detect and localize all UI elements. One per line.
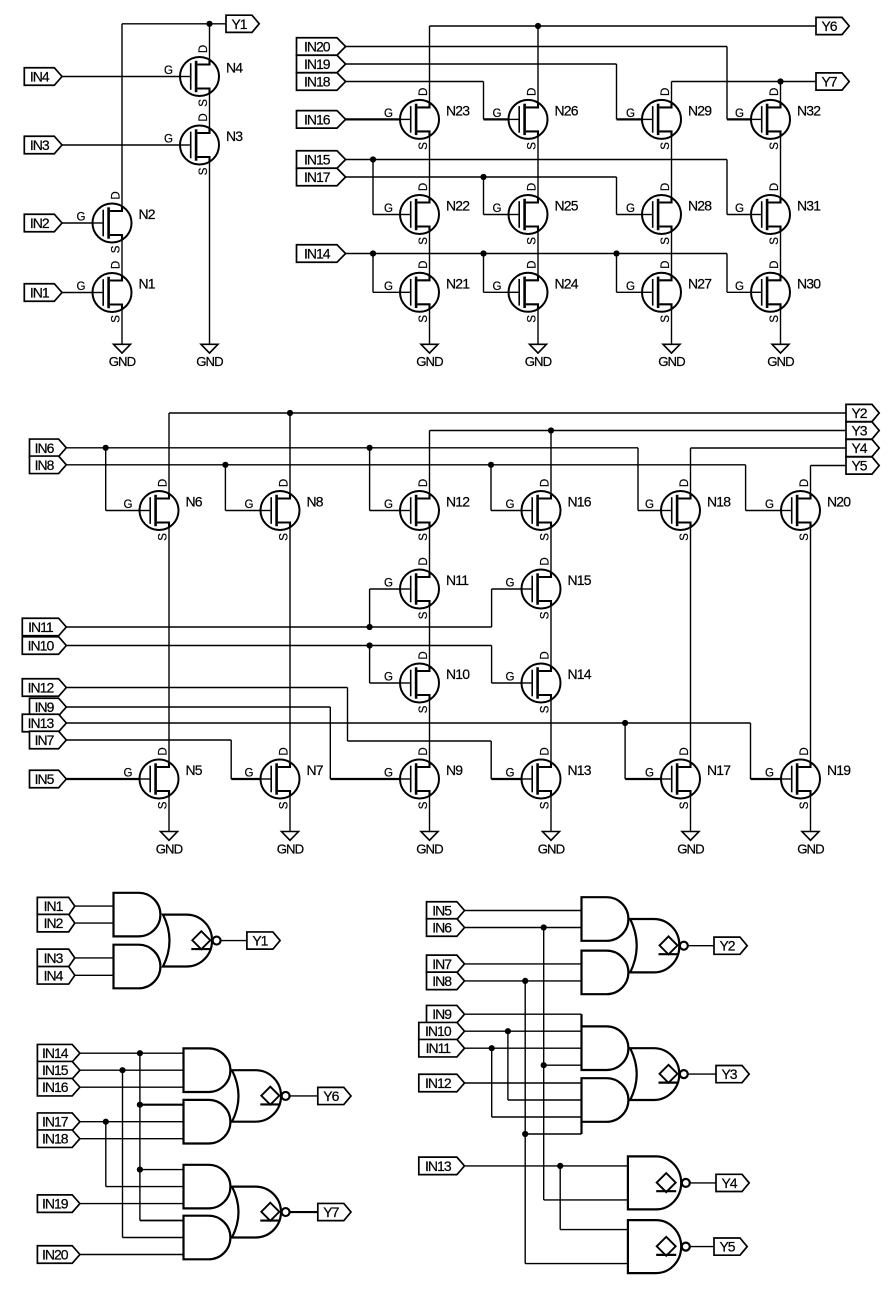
svg-text:IN17: IN17 [42,1114,69,1130]
wire N20 source to N19 drain [810,527,812,762]
svg-text:N4: N4 [226,60,243,76]
input flag IN12 [419,1074,465,1092]
input flag IN19 [37,1195,80,1213]
svg-text:D: D [799,747,811,755]
wire IN13 to NAND gate Y4 pin1 [465,1165,628,1167]
transistor N22 (NMOS) [384,183,470,245]
svg-text:D: D [526,183,538,191]
wire IN10 to N10 gate [370,646,400,684]
wire source to GND column 3 (middle) [429,796,431,832]
input flag IN1 [24,284,62,302]
junction IN14 branch to N24 [480,250,486,256]
svg-text:G: G [506,499,515,511]
svg-text:N12: N12 [446,494,470,510]
input flag IN18 [37,1130,80,1148]
AND gate A1 (IN1,IN2) [114,893,161,937]
output flag Y4 [846,439,879,456]
svg-text:D: D [110,261,122,269]
transistor N4 (NMOS) [164,45,243,107]
svg-text:IN2: IN2 [30,215,50,231]
svg-text:IN9: IN9 [35,699,55,715]
svg-text:D: D [526,261,538,269]
svg-text:S: S [418,705,430,713]
wire IN6 to AND gate A9 pin4 [544,1064,582,1066]
svg-text:IN8: IN8 [432,973,452,989]
input flag IN2 [37,914,75,932]
svg-text:G: G [124,768,133,780]
wire IN7 to AND gate A8 [465,963,582,965]
svg-text:IN15: IN15 [304,152,331,168]
svg-text:S: S [418,142,430,150]
transistor N28 (NMOS) [626,183,712,245]
input flag IN13 [419,1157,465,1175]
svg-text:Y2: Y2 [719,938,735,954]
wire Y2 net: N6 drain up [168,413,170,494]
wire IN4 to N4 gate [62,76,180,78]
svg-text:S: S [769,237,781,245]
wire IN9 to AND gate A9 pin1 [465,1013,582,1015]
svg-text:S: S [526,142,538,150]
transistor N19 (NMOS) [765,747,851,809]
input flag IN5 [30,770,67,788]
svg-text:G: G [384,281,393,293]
input flag IN16 [297,111,346,128]
NOR gate (open-drain) driving Y7 [232,1187,281,1238]
wire IN1 to N1 gate [62,292,93,294]
svg-text:D: D [526,88,538,96]
wire source to GND column 6 (middle) [810,796,812,832]
wire IN16 to AND gate A3 [80,1086,184,1088]
svg-text:D: D [769,183,781,191]
input flag IN16 [37,1078,80,1096]
svg-text:G: G [506,578,515,590]
svg-text:IN10: IN10 [28,638,55,654]
wire N18 source to N17 drain [690,527,692,762]
svg-text:S: S [418,611,430,619]
wire IN14 to N30 gate [727,254,751,293]
svg-text:IN10: IN10 [425,1023,452,1039]
svg-text:G: G [645,499,654,511]
svg-text:S: S [539,533,551,541]
wire Y7 output [290,1211,318,1213]
svg-text:N2: N2 [139,206,156,222]
svg-text:D: D [198,45,210,53]
wire N8 source to N7 drain [289,527,291,762]
input flag IN3 [37,949,75,967]
ground (top-right column 3) [658,344,685,369]
svg-text:Y1: Y1 [231,16,247,32]
svg-text:D: D [660,183,672,191]
svg-text:D: D [157,747,169,755]
svg-text:G: G [245,768,254,780]
open-drain diamond symbol [659,936,679,954]
wire IN19 gate stub at N29 [617,118,643,120]
wire Y7 net: N32 drain up [780,82,782,103]
wire IN4 to AND gate A2 [75,974,114,976]
svg-text:G: G [384,578,393,590]
svg-text:GND: GND [109,354,136,369]
wire IN14 to N27 gate [617,254,643,293]
wire IN10 horizontal [66,645,491,647]
output flag Y2 [846,404,879,421]
wire IN12 to N13 gate [66,688,491,780]
svg-text:Y7: Y7 [821,74,837,90]
wire IN10 to AND gate A9 [465,1030,582,1032]
svg-text:N10: N10 [446,666,470,682]
svg-text:IN12: IN12 [28,680,55,696]
wire IN10 vertical to A10 [508,1031,582,1100]
wire IN11 to N15 gate [492,589,522,627]
svg-text:Y5: Y5 [851,458,867,474]
wire Y5 output [690,1246,714,1248]
svg-text:S: S [660,237,672,245]
svg-text:IN13: IN13 [425,1158,452,1174]
open-drain diamond symbol [260,1203,280,1221]
AND gate A3 (IN14,IN15,IN16) [184,1048,231,1092]
svg-text:GND: GND [677,841,704,856]
svg-text:IN1: IN1 [44,898,64,914]
input flag IN15 [37,1061,80,1079]
output flag Y4 [716,1174,749,1191]
wire IN14 to AND gate A3 [80,1052,184,1054]
wire N4 source to N3 drain [209,93,211,128]
wire IN18 to N26 gate [346,82,484,120]
output inversion bubble [682,1243,690,1251]
svg-text:G: G [384,108,393,120]
junction IN11 branch to N11 [367,624,373,630]
ground (middle column 2) [277,832,304,857]
wire IN19 to N29 gate [346,64,617,119]
wire N3 source to GND [209,162,211,345]
wire IN13 to N17 gate [624,723,626,779]
input flag IN6 [427,919,465,937]
NAND gate (open-drain) driving Y5 [628,1220,681,1273]
svg-text:D: D [539,479,551,487]
svg-text:S: S [539,801,551,809]
svg-text:GND: GND [277,841,304,856]
svg-text:S: S [679,533,691,541]
wire Y1 output [221,940,247,942]
wire IN8 vertical [524,981,526,1264]
svg-text:N27: N27 [688,275,712,291]
output flag Y7 [816,73,849,90]
svg-text:S: S [418,315,430,323]
wire IN6 to N18 gate [638,448,661,511]
junction IN14 to A5 [137,1167,143,1173]
svg-text:IN19: IN19 [42,1196,69,1212]
svg-text:S: S [769,315,781,323]
junction IN13 vertical [557,1163,563,1169]
wire source to GND column 2 (middle) [289,796,291,832]
svg-text:IN18: IN18 [304,74,331,90]
svg-text:Y1: Y1 [252,933,268,949]
svg-text:Y4: Y4 [851,440,867,456]
junction IN8 vertical [522,978,528,984]
wire IN6 vertical [543,928,545,1200]
transistor N9 (NMOS) [384,747,463,809]
output flag Y1 [247,932,280,949]
svg-text:S: S [799,801,811,809]
output flag Y1 [226,15,259,32]
svg-text:IN19: IN19 [304,56,331,72]
wire IN12 gate stub at N13 [491,778,521,780]
wire Y2 output [688,945,714,947]
wire source to GND column 5 (middle) [690,796,692,832]
svg-text:G: G [245,499,254,511]
wire IN20 to AND gate A6 [80,1254,184,1256]
wire IN3 to N3 gate [62,144,180,146]
wire IN14 to AND gate A5 pin1 [140,1169,184,1171]
output inversion bubble [282,1092,290,1100]
NOR gate (open-drain) driving Y1 [163,915,212,967]
svg-text:D: D [110,191,122,199]
svg-text:D: D [660,261,672,269]
junction IN10 branch to N10 [367,642,373,648]
svg-text:G: G [765,768,774,780]
svg-text:G: G [493,203,502,215]
transistor N14 (NMOS) [506,651,592,713]
input flag IN20 [37,1246,80,1264]
wire IN15 to AND gate A3 [80,1069,184,1071]
svg-text:S: S [278,801,290,809]
wire IN17 vertical to A5 [106,1122,184,1187]
AND gate A4 (IN14,IN17,IN18) [184,1100,231,1144]
transistor N5 (NMOS) [124,747,203,809]
wire drain-source chain column 1 (top-right) [429,136,431,344]
input flag IN6 [30,439,67,457]
output flag Y2 [714,937,747,954]
transistor N29 (NMOS) [626,88,712,150]
junction IN13 branch to N17 [622,720,628,726]
wire drain-source chain column 3 (top-right) [671,136,673,344]
svg-text:GND: GND [538,841,565,856]
svg-text:GND: GND [416,354,443,369]
wire IN8 to AND gate A8 [465,980,582,982]
svg-text:Y3: Y3 [721,1066,737,1082]
svg-text:G: G [626,203,635,215]
AND gate A7 (IN5,IN6) [582,897,629,941]
svg-text:N20: N20 [827,494,851,510]
input flag IN8 [427,972,465,990]
svg-text:D: D [769,88,781,96]
wire IN2 to AND gate A1 [75,922,114,924]
output flag Y7 [318,1203,351,1220]
junction IN8 branch to N8 [222,462,228,468]
transistor N20 (NMOS) [765,479,851,541]
svg-text:N11: N11 [446,572,469,588]
svg-text:G: G [735,203,744,215]
wire IN9 to N9 gate [66,707,330,779]
svg-text:D: D [418,747,430,755]
svg-text:IN14: IN14 [42,1045,69,1061]
svg-text:D: D [278,747,290,755]
input flag IN7 [30,731,67,749]
open-drain diamond symbol [656,1173,676,1192]
input flag IN11 [22,618,66,636]
svg-text:Y6: Y6 [821,18,837,34]
wire IN11 to N11 gate [370,589,400,627]
svg-text:IN8: IN8 [35,457,55,473]
svg-text:G: G [506,672,515,684]
svg-text:D: D [418,183,430,191]
wire N12-N11-N10-N9 chain [429,527,431,762]
ground (top-right column 1) [416,344,443,369]
wire N1 source to GND [121,309,123,344]
input flag IN17 [37,1113,80,1131]
wire IN6 to AND gate A7 [465,927,582,929]
output flag Y3 [846,422,879,439]
wire Y5 net: N20 drain to flag [811,466,847,494]
svg-text:IN11: IN11 [28,619,54,635]
input flag IN13 [22,714,66,732]
wire IN18 gate stub at N26 [484,118,509,120]
svg-text:S: S [660,315,672,323]
svg-text:G: G [735,108,744,120]
input flag IN3 [24,136,62,154]
wire IN13 gate stub at N19 [751,778,782,780]
svg-text:G: G [493,281,502,293]
svg-text:G: G [384,499,393,511]
open-drain diamond symbol [659,1065,679,1083]
AND gate A5 (IN14,IN17,IN19) [184,1165,231,1209]
svg-text:IN16: IN16 [42,1079,69,1095]
svg-text:G: G [735,281,744,293]
svg-text:N19: N19 [827,762,851,778]
svg-text:S: S [526,237,538,245]
svg-text:Y5: Y5 [719,1239,735,1255]
wire Y6 net: bus to Y6 flag [430,25,817,27]
svg-text:G: G [164,134,173,146]
transistor N23 (NMOS) [384,88,470,150]
svg-text:N13: N13 [568,762,592,778]
svg-text:GND: GND [525,354,552,369]
svg-text:IN15: IN15 [42,1062,69,1078]
input flag IN12 [22,679,66,697]
input flag IN8 [30,456,67,474]
output flag Y5 [714,1238,747,1255]
svg-text:D: D [799,479,811,487]
wire IN15 horizontal [346,159,727,161]
wire IN14 to N24 gate [484,254,509,293]
svg-text:D: D [769,261,781,269]
output inversion bubble [213,937,221,945]
transistor N27 (NMOS) [626,261,712,323]
wire Y3 net: N12 drain up [429,431,431,494]
wire drain-source chain column 4 (top-right) [780,136,782,344]
open-drain diamond symbol [656,1237,676,1256]
wire IN5 to AND gate A7 [465,910,582,912]
wire IN15 vertical to A6 [123,1070,184,1237]
input flag IN19 [297,55,346,73]
junction IN17 branch to N25 [480,174,486,180]
AND gate A8 (IN7,IN8) [582,951,629,995]
wire Y1 net: horizontal bus to Y1 flag [122,23,226,25]
wire IN13 to NAND gate Y5 pin1 [560,1166,628,1230]
wire IN7 to N7 gate [66,740,231,779]
output inversion bubble [680,1070,688,1078]
svg-text:N7: N7 [307,762,324,778]
svg-text:Y3: Y3 [851,423,867,439]
svg-text:G: G [626,281,635,293]
svg-text:N22: N22 [446,198,470,214]
svg-text:IN6: IN6 [35,440,55,456]
wire Y2 net: bus to Y2 flag [169,412,846,414]
svg-text:S: S [157,801,169,809]
transistor N2 (NMOS) [77,191,156,253]
wire IN13 gate stub at N17 [625,778,661,780]
svg-text:S: S [799,533,811,541]
wire Y1 net: N4 drain to junction [209,24,211,60]
input flag IN10 [22,637,66,655]
svg-text:N18: N18 [707,494,731,510]
input flag IN17 [297,168,346,186]
ground (middle column 6) [797,832,824,857]
svg-text:G: G [765,499,774,511]
wire IN14 horizontal [346,253,727,255]
svg-text:D: D [679,479,691,487]
wire IN6 horizontal [66,447,638,449]
svg-text:S: S [110,315,122,323]
junction Y7/N32 drain [777,78,783,84]
svg-text:IN5: IN5 [35,771,55,787]
svg-text:IN11: IN11 [426,1040,452,1056]
svg-text:N9: N9 [446,762,463,778]
junction IN8 to A10 pin4 [522,1131,528,1137]
ground (middle column 4) [538,832,565,857]
wire IN11 to AND gate A9 [465,1047,582,1049]
wire IN17 to AND gate A4 [80,1121,184,1123]
svg-text:IN4: IN4 [30,69,50,85]
input flag IN4 [37,967,75,985]
wire Y3 net: N16 drain up [550,431,552,494]
wire IN13 to N19 gate [750,723,752,779]
svg-text:IN7: IN7 [35,732,55,748]
wire IN8 horizontal [66,464,745,466]
svg-text:IN3: IN3 [30,137,50,153]
junction IN14 to A4 [137,1102,143,1108]
wire IN6 to N6 gate [106,448,140,511]
svg-text:IN6: IN6 [432,920,452,936]
svg-text:S: S [418,801,430,809]
junction IN17 vertical [103,1119,109,1125]
output inversion bubble [282,1208,290,1216]
transistor N11 (NMOS) [384,557,469,619]
transistor N3 (NMOS) [164,113,243,175]
input flag IN10 [419,1022,465,1039]
svg-text:S: S [198,167,210,175]
junction Y6/N26 drain [535,23,541,29]
transistor N21 (NMOS) [384,261,470,323]
svg-text:D: D [418,261,430,269]
input flag IN1 [37,897,75,915]
transistor N17 (NMOS) [645,747,731,809]
junction IN14 branch to N27 [613,250,619,256]
wire IN14 to AND gate A6 pin1 [140,1220,184,1222]
transistor N25 (NMOS) [493,183,579,245]
wire IN16 to N23 gate [346,118,400,120]
wire IN17 horizontal [346,176,617,178]
wire source to GND column 1 (middle) [168,796,170,832]
svg-text:S: S [526,315,538,323]
AND gate A2 (IN3,IN4) [114,945,161,989]
junction Y2/N8 drain [287,410,293,416]
svg-text:IN12: IN12 [425,1075,452,1091]
open-drain diamond symbol [191,931,211,949]
junction IN14 vertical [137,1050,143,1056]
svg-text:N29: N29 [688,102,712,118]
wire IN5 to N5 gate [66,778,139,780]
svg-text:IN13: IN13 [28,715,55,731]
